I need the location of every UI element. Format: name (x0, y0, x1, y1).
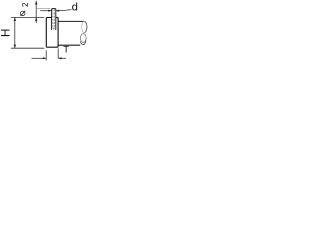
flange bottom edge (46, 46, 58, 48)
pin left edge (51, 9, 53, 30)
d dimension line right piece with arrow and tail (56, 10, 71, 11)
H dimension line (14, 17, 16, 48)
shaft end upper ellipse left arc (faint) (82, 21, 85, 32)
d dimension line left piece with arrow (40, 10, 51, 12)
hidden hole right line (dashed) (54, 9, 56, 28)
phi2 arrow at top pointing up (35, 1, 37, 5)
shaft bottom edge (58, 44, 80, 46)
shaft top edge (58, 20, 84, 22)
pin right edge (55, 9, 57, 30)
phi2 arrow pointing up at flange-top line (35, 17, 37, 21)
extension line, pin top (faint) (37, 8, 50, 10)
H dimension arrow down (14, 45, 16, 49)
pin top edge (52, 8, 56, 10)
svg-text:2: 2 (21, 2, 30, 7)
hidden hole left line (dashed) (52, 9, 54, 28)
extension line, H bottom reference (11, 47, 44, 49)
phi2 dimension line (35, 1, 37, 23)
svg-text:T: T (63, 44, 69, 55)
label phi2 (rotated) (20, 2, 30, 16)
hidden hole bottom (drill point, dashed) (53, 27, 55, 30)
T dimension line right piece with arrow (59, 57, 67, 59)
shaft end lower oval (3D) (80, 34, 86, 43)
svg-text:d: d (72, 1, 78, 13)
flange right edge (57, 18, 59, 48)
shaft end bottom arc (80, 40, 86, 44)
T extension line left (45, 51, 47, 61)
flange top edge right segment (56, 17, 58, 19)
shaft end upper ellipse (3D) (84, 21, 87, 32)
flange top edge left segment (46, 17, 51, 19)
flange (head) left edge (45, 18, 47, 48)
T extension line right (57, 49, 59, 59)
H dimension arrow up (14, 17, 16, 21)
svg-text:H: H (0, 29, 12, 38)
extension line, flange top / H top / phi2 bottom reference (11, 16, 44, 18)
T dimension line left piece with arrow (32, 57, 46, 59)
